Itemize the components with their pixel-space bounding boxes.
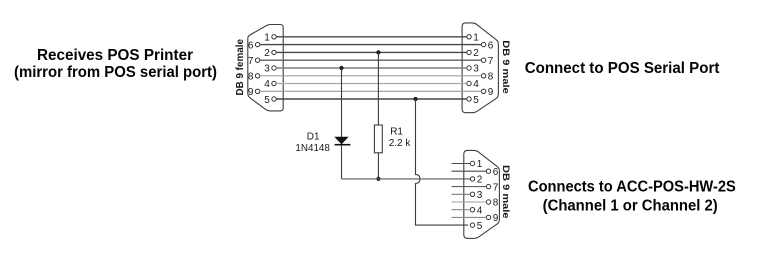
wire pin 3: J1 to J2: [276, 67, 467, 69]
resistor R1 body: [374, 125, 382, 153]
svg-text:3: 3: [264, 64, 270, 75]
svg-text:8: 8: [488, 72, 494, 83]
svg-text:9: 9: [248, 87, 254, 98]
wire: pin 3 wire down to diode D1 anode: [341, 68, 343, 137]
pin 6 circle, J3: [486, 169, 490, 173]
wire pin 8: J1 to J2: [260, 75, 482, 77]
pin 1 circle, J1: [272, 35, 276, 39]
svg-text:DB 9 female: DB 9 female: [234, 39, 246, 96]
pin 4 circle, J1: [272, 81, 276, 85]
diode D1 symbol (anode triangle + cathode bar): [335, 137, 351, 146]
pin 4 circle, J3: [470, 208, 474, 212]
svg-text:5: 5: [264, 95, 270, 106]
pin 7 circle, J2: [481, 58, 485, 62]
wire: D1 cathode down to bottom rail: [341, 145, 343, 179]
wire: bottom rail from D1 to J3 pin 2: [342, 178, 471, 180]
pin 4 circle, J2: [467, 81, 471, 85]
svg-text:5: 5: [477, 221, 483, 232]
pin 2 circle, J1: [272, 50, 276, 54]
svg-text:DB 9 male: DB 9 male: [501, 165, 511, 219]
connector J1 DB 9 female outline: [248, 25, 283, 111]
pin 8 circle, J1: [255, 74, 259, 78]
pin 9 circle, J2: [481, 89, 485, 93]
pin 5 circle, J2: [467, 97, 471, 101]
svg-text:7: 7: [493, 182, 499, 193]
svg-text:R1: R1: [390, 127, 403, 138]
svg-text:(mirror from POS serial port): (mirror from POS serial port): [14, 64, 217, 81]
pin 1 circle, J3: [470, 161, 474, 165]
svg-text:1: 1: [477, 159, 483, 170]
svg-text:4: 4: [264, 79, 270, 90]
wire pin 7: J1 to J2: [260, 59, 482, 61]
svg-text:1N4148: 1N4148: [295, 143, 330, 154]
svg-text:1: 1: [264, 33, 270, 44]
wire pin 9: J1 to J2: [260, 90, 482, 92]
wire pin 1: J1 to J2: [276, 36, 467, 38]
pin 6 circle, J1: [255, 42, 259, 46]
svg-text:2.2 k: 2.2 k: [389, 138, 412, 149]
pin 8 circle, J2: [481, 74, 485, 78]
wire stub, J3 pin 6: [452, 170, 487, 172]
svg-text:(Channel 1 or Channel 2): (Channel 1 or Channel 2): [543, 197, 718, 214]
wire stub, J3 pin 3: [452, 193, 471, 195]
svg-text:Receives POS Printer: Receives POS Printer: [37, 47, 193, 64]
svg-text:7: 7: [248, 56, 254, 67]
pin 1 circle, J2: [467, 35, 471, 39]
pin 7 circle, J3: [486, 184, 490, 188]
wire stub, J3 pin 4: [452, 209, 471, 211]
svg-text:6: 6: [488, 40, 494, 51]
svg-text:2: 2: [264, 48, 270, 59]
pin 2 circle, J2: [467, 50, 471, 54]
svg-text:9: 9: [488, 87, 494, 98]
svg-text:3: 3: [477, 190, 483, 201]
node D junction dot on pin 5 wire: [413, 97, 417, 101]
svg-text:5: 5: [473, 95, 479, 106]
pin 5 circle, J3: [470, 223, 474, 227]
node A junction dot on pin 3 wire: [339, 66, 343, 70]
svg-text:6: 6: [248, 40, 254, 51]
pin 3 circle, J2: [467, 66, 471, 70]
wire: R1 down to bottom rail: [377, 153, 379, 179]
pin 3 circle, J1: [272, 66, 276, 70]
wire pin 2: J1 to J2: [276, 51, 467, 53]
wire: pin 2 wire down to resistor R1: [377, 52, 379, 125]
svg-text:3: 3: [473, 64, 479, 75]
svg-text:9: 9: [493, 213, 499, 224]
svg-text:8: 8: [493, 198, 499, 209]
pin 7 circle, J1: [255, 58, 259, 62]
wire: pin 5 wire down with hop over bottom rail, to J3 pin 5: [416, 99, 469, 225]
pin 2 circle, J3: [470, 177, 474, 181]
svg-text:8: 8: [248, 72, 254, 83]
svg-text:6: 6: [493, 167, 499, 178]
wire stub, J3 pin 8: [452, 201, 487, 203]
connector J2 DB 9 male outline: [462, 23, 498, 113]
pin 6 circle, J2: [481, 42, 485, 46]
svg-text:DB 9 male: DB 9 male: [501, 40, 511, 94]
node C junction dot on bottom rail at R1: [376, 177, 380, 181]
svg-text:4: 4: [473, 79, 479, 90]
node B junction dot on pin 2 wire: [376, 50, 380, 54]
pin 5 circle, J1: [272, 97, 276, 101]
wire stub, J3 pin 1: [452, 163, 471, 165]
wire pin 5: J1 to J2: [276, 98, 467, 100]
svg-text:2: 2: [473, 48, 479, 59]
svg-text:4: 4: [477, 205, 483, 216]
svg-text:7: 7: [488, 56, 494, 67]
svg-text:1: 1: [473, 33, 479, 44]
svg-text:Connect to POS Serial Port: Connect to POS Serial Port: [525, 60, 720, 77]
svg-text:Connects to ACC-POS-HW-2S: Connects to ACC-POS-HW-2S: [528, 179, 736, 196]
connector J3 DB 9 male outline: [464, 150, 500, 238]
svg-text:D1: D1: [307, 131, 320, 142]
pin 9 circle, J3: [486, 215, 490, 219]
wire pin 6: J1 to J2: [260, 44, 482, 46]
pin 3 circle, J3: [470, 192, 474, 196]
wire stub, J3 pin 7: [452, 186, 487, 188]
svg-text:2: 2: [477, 175, 483, 186]
pin 9 circle, J1: [255, 89, 259, 93]
wire pin 4: J1 to J2: [276, 83, 467, 85]
pin 8 circle, J3: [486, 200, 490, 204]
wire stub, J3 pin 9: [452, 216, 487, 218]
